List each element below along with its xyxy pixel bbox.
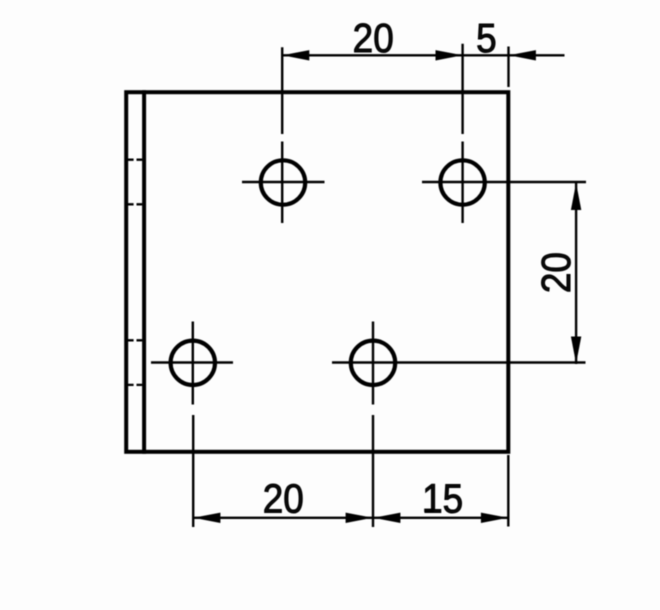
svg-text:20: 20	[534, 252, 579, 293]
svg-text:5: 5	[476, 16, 497, 61]
svg-text:20: 20	[353, 16, 394, 61]
svg-text:15: 15	[422, 477, 463, 522]
svg-text:20: 20	[263, 477, 304, 522]
